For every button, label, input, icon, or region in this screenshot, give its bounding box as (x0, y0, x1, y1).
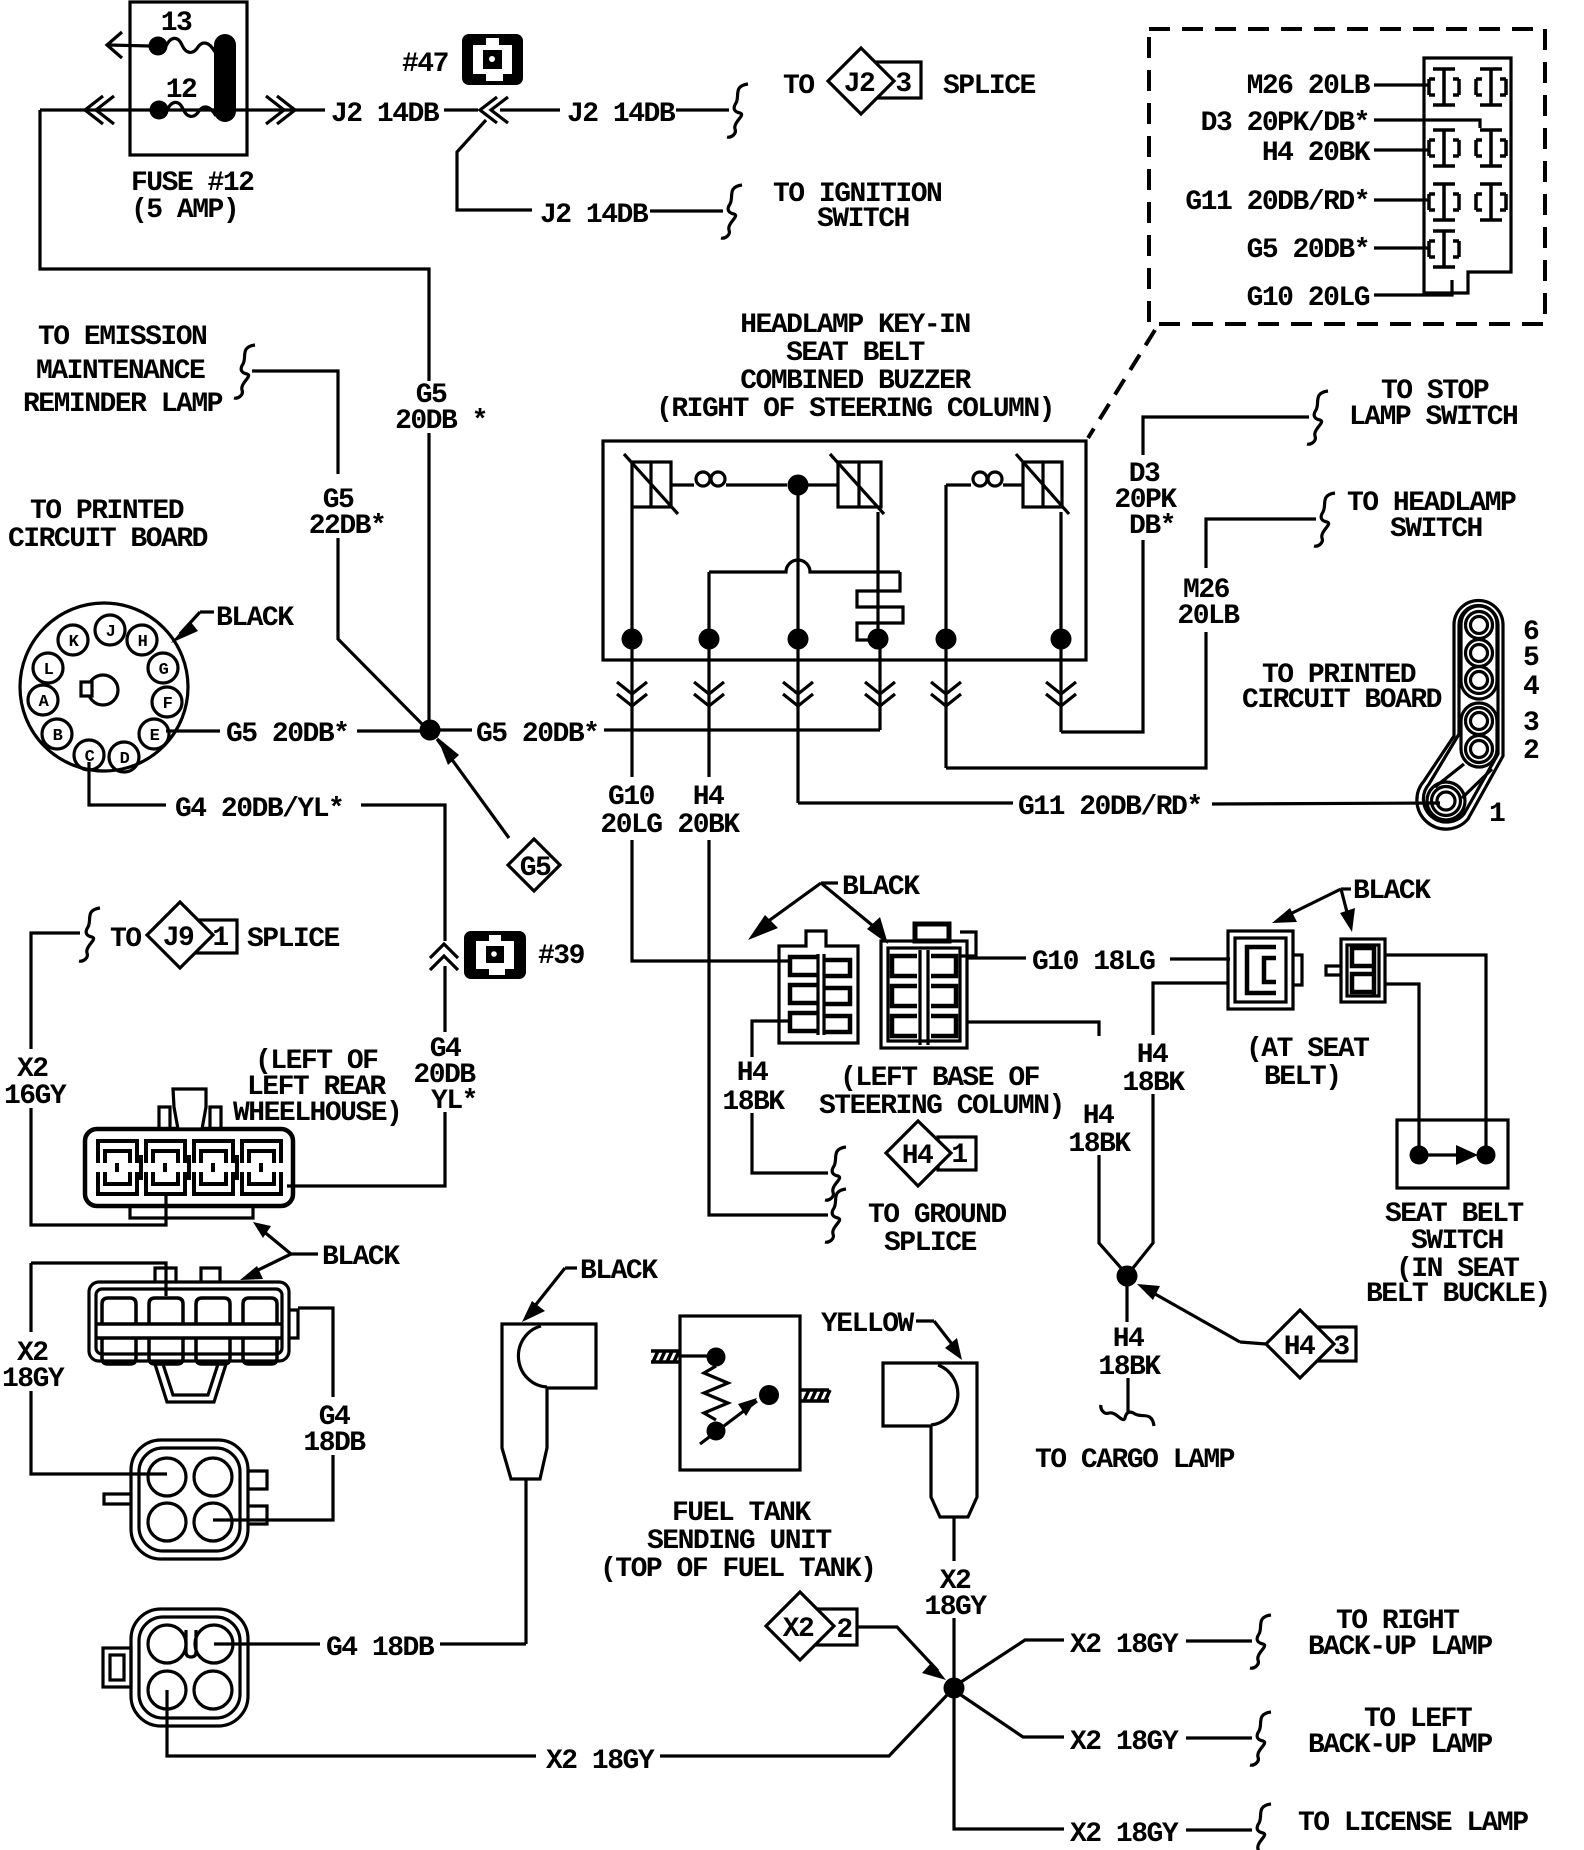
sending unit right stud (800, 1390, 830, 1401)
cavity J (95, 615, 125, 645)
fuse terminal dot 12 (150, 101, 169, 120)
internal wire to terminal 2 (707, 572, 710, 639)
dashed leader to buzzer (1088, 330, 1155, 438)
C204 terminals left column (790, 957, 818, 1031)
wire G5 into block (1374, 246, 1430, 249)
svg-text:D: D (120, 750, 130, 769)
svg-text:12: 12 (166, 75, 197, 106)
svg-text:WHEELHOUSE): WHEELHOUSE) (233, 1098, 401, 1129)
connector C200 wheelhouse 14-way body (85, 1129, 293, 1206)
cavity D (109, 742, 139, 772)
C203 cavities (148, 1625, 233, 1709)
label H4 18BK (right drop) (1122, 1040, 1185, 1099)
wire into pin 12 from left (40, 108, 214, 111)
svg-text:3: 3 (1523, 708, 1539, 739)
splice symbol H4-1 square (938, 1137, 976, 1170)
svg-text:CIRCUIT BOARD: CIRCUIT BOARD (8, 524, 208, 555)
svg-text:1: 1 (1489, 799, 1505, 830)
bracket license lamp (1250, 1804, 1271, 1850)
center keyway (81, 675, 118, 705)
svg-text:SWITCH: SWITCH (817, 204, 909, 235)
wire drop 5 (M26) (931, 649, 961, 768)
svg-text:BLACK: BLACK (1353, 876, 1431, 907)
svg-text:SPLICE: SPLICE (884, 1228, 977, 1259)
svg-text:H4: H4 (1113, 1324, 1144, 1355)
svg-text:18BK: 18BK (1098, 1352, 1161, 1383)
svg-text:G: G (159, 661, 169, 680)
wire G11 run right (798, 801, 1013, 804)
label X2 16GY (4, 1054, 67, 1112)
connector C201 top tabs (155, 1268, 220, 1282)
bracket to J9 splice (79, 908, 100, 961)
bracket to ground splice (upper) (825, 1147, 846, 1200)
wire junction to right label (440, 728, 472, 731)
svg-text:G4 18DB: G4 18DB (326, 1633, 435, 1664)
chevron connector on G4 wire (430, 944, 458, 970)
wire G10 18LG from C205 (967, 956, 1026, 959)
wire G4 18DB from C201 bump (298, 1308, 333, 1397)
PCB cavity 6 (1466, 612, 1493, 639)
splice symbol H4-3 diamond (1266, 1310, 1334, 1378)
buzzer terminal dots (622, 629, 1072, 650)
C205 terminals right column (931, 956, 956, 1036)
label (LEFT BASE OF STEERING COLUMN) (819, 1063, 1064, 1122)
connector C206 at seat belt (left) body (1228, 931, 1302, 1009)
svg-text:20LG: 20LG (600, 810, 662, 841)
wire H4 from C205 right side (967, 1022, 1099, 1036)
svg-text:DB*: DB* (1129, 511, 1175, 542)
svg-text:G5 20DB*: G5 20DB* (1247, 235, 1369, 266)
svg-text:TO EMISSION: TO EMISSION (38, 322, 206, 353)
splice symbol J2-3 square (877, 62, 921, 98)
bracket to headlamp switch (1314, 493, 1335, 546)
wire out of fuse right (236, 108, 325, 111)
buzzer internal junction dot (788, 475, 809, 496)
splice symbol J9-1 diamond (147, 902, 213, 968)
svg-text:X2: X2 (783, 1614, 814, 1645)
junction dot X2 (944, 1678, 965, 1699)
connector C201 terminal rows (96, 1298, 282, 1364)
wire drop 3 (G11) (783, 649, 813, 803)
label TO GROUND SPLICE (868, 1200, 1006, 1259)
wire from C207 to switch left (1385, 984, 1419, 1146)
junction dot H4 (1117, 1266, 1138, 1287)
grommet icon #39 (464, 931, 526, 979)
C202 cavities (148, 1458, 232, 1541)
label H4 18BK (below junction) (1098, 1324, 1161, 1383)
wire G4 20DB/YL from cavity C (89, 762, 166, 805)
bracket left back-up lamp (1250, 1712, 1271, 1765)
connector C205 steering column right body (881, 924, 976, 1048)
svg-text:1: 1 (951, 1140, 967, 1171)
svg-text:G10 18LG: G10 18LG (1032, 947, 1155, 978)
svg-text:SPLICE: SPLICE (943, 71, 1036, 102)
PCB cavity 4 (1466, 667, 1493, 694)
svg-text:(5 AMP): (5 AMP) (131, 195, 238, 226)
PCB cavity 1 (1432, 787, 1461, 816)
connector C200 top tabs (159, 1089, 221, 1129)
wire H4 to cargo lamp bracket (1126, 1378, 1129, 1412)
C204 terminals right column (824, 960, 850, 1032)
svg-text:LAMP SWITCH: LAMP SWITCH (1349, 402, 1517, 433)
cavity K (58, 625, 88, 655)
label X2 18GY (second) (2, 1338, 65, 1395)
wire drop 4 (G5) (865, 649, 895, 730)
wire G5 22DB down and diagonal to junction (338, 538, 425, 727)
wire drop 6 (D3) (1046, 649, 1076, 732)
PCB edge connector body (1417, 601, 1503, 830)
svg-text:G4 20DB/YL*: G4 20DB/YL* (175, 794, 343, 825)
svg-text:18DB: 18DB (303, 1428, 366, 1459)
label BLACK (round connector) with arrow (171, 603, 294, 643)
label HEADLAMP KEY-IN SEAT BELT COMBINED BUZZER (RIGHT OF STEERING COLUMN) (656, 310, 1054, 425)
label TO PRINTED CIRCUIT BOARD (right) (1242, 660, 1442, 716)
C204 terminal spine (818, 954, 824, 1035)
label SEAT BELT SWITCH (IN SEAT BELT BUCKLE) (1366, 1199, 1550, 1310)
svg-text:SWITCH: SWITCH (1390, 514, 1482, 545)
label YELLOW with arrow (821, 1309, 962, 1360)
PCB pin numbers (1489, 617, 1539, 830)
wire H4 down to upper ground bracket (752, 1113, 828, 1173)
buzzer element 2 (830, 454, 884, 514)
svg-text:STEERING COLUMN): STEERING COLUMN) (819, 1091, 1064, 1122)
wire S branch to license lamp (954, 1698, 1064, 1829)
wire X2 18GY from yellow connector (952, 1517, 955, 1561)
wire H4 down to junction (1099, 1155, 1121, 1268)
fuse element 13 (166, 38, 215, 52)
svg-text:G11 20DB/RD*: G11 20DB/RD* (1185, 187, 1369, 218)
splice symbol H4-1 diamond (886, 1121, 951, 1186)
wire G11 into block (1374, 198, 1430, 201)
svg-text:(LEFT BASE OF: (LEFT BASE OF (840, 1063, 1040, 1094)
svg-text:G5: G5 (520, 853, 551, 884)
fuel tank sending unit box (680, 1316, 800, 1470)
svg-text:BELT): BELT) (1264, 1062, 1341, 1093)
PCB cavity 3 (1466, 708, 1493, 735)
label G10 20LG (600, 782, 662, 841)
svg-text:J2 14DB: J2 14DB (540, 200, 649, 231)
connector C204 steering column left body (779, 931, 858, 1043)
svg-text:YL*: YL* (431, 1086, 477, 1117)
svg-text:L: L (44, 661, 54, 680)
cavity H (127, 625, 157, 655)
svg-text:BELT BUCKLE): BELT BUCKLE) (1366, 1279, 1550, 1310)
svg-text:J2 14DB: J2 14DB (331, 99, 440, 130)
internal wire element3 to terminal 6 (1059, 512, 1062, 639)
wire G10 18LG to seat belt connector (1170, 957, 1230, 960)
wire G4 below chevron (443, 966, 446, 1032)
coil 2 (946, 472, 1023, 486)
svg-text:H4: H4 (693, 782, 724, 813)
label TO RIGHT BACK-UP LAMP (1308, 1606, 1492, 1663)
svg-text:FUEL TANK: FUEL TANK (672, 1498, 811, 1529)
connector C200 terminals row 2 (98, 1172, 281, 1194)
svg-text:BACK-UP LAMP: BACK-UP LAMP (1308, 1632, 1492, 1663)
switch arm with arrow (1428, 1145, 1478, 1165)
internal wire element2 to terminal 4 (876, 512, 879, 639)
label H4 20BK (677, 782, 740, 841)
fuse block F12 box (130, 2, 247, 155)
cavity G (148, 653, 178, 683)
wire G10 into block (1374, 280, 1452, 295)
svg-text:2: 2 (1523, 736, 1539, 767)
wire down to junction (952, 1618, 955, 1678)
G5 reference arrow to junction (437, 737, 509, 838)
internal wire element1 to terminal 1 (630, 507, 633, 639)
PCB cavity 5 (1466, 640, 1493, 667)
fuse terminal dot 13 (149, 37, 168, 56)
wire G11 to PCB connector cavity 1 (1212, 803, 1440, 804)
coil 1 (671, 472, 787, 486)
C205 terminals left column (892, 956, 917, 1036)
label BLACK (fuel) with arrow (522, 1256, 658, 1322)
cavity L (33, 653, 63, 683)
svg-text:H: H (138, 633, 148, 652)
bracket to ground splice (lower) (825, 1189, 846, 1242)
chevron connector #47 splice point (480, 97, 508, 123)
wire G5 20DB from fuse: left drop and run to x429 (40, 110, 429, 381)
wire H4 20BK to ground splice bracket (709, 840, 828, 1215)
svg-text:(RIGHT OF STEERING COLUMN): (RIGHT OF STEERING COLUMN) (656, 394, 1054, 425)
label M26 20LB (1177, 575, 1240, 632)
wire H4 below junction (1125, 1286, 1128, 1322)
sending unit wiper arm with arrow (700, 1398, 757, 1444)
svg-text:HEADLAMP KEY-IN: HEADLAMP KEY-IN (740, 310, 970, 341)
svg-text:SPLICE: SPLICE (247, 924, 340, 955)
svg-text:5: 5 (1523, 643, 1539, 674)
svg-text:TO: TO (110, 924, 141, 955)
svg-text:G5 20DB*: G5 20DB* (476, 719, 598, 750)
svg-text:18BK: 18BK (722, 1087, 785, 1118)
svg-text:18GY: 18GY (2, 1364, 65, 1395)
label TO HEADLAMP SWITCH (1347, 488, 1516, 545)
svg-text:H4: H4 (1137, 1040, 1168, 1071)
svg-text:COMBINED BUZZER: COMBINED BUZZER (740, 366, 971, 397)
sending unit terminal dot 3 (707, 1422, 726, 1441)
svg-text:(AT SEAT: (AT SEAT (1246, 1034, 1369, 1065)
fuse bus bar (214, 34, 236, 122)
fuse cell R3 (1476, 184, 1506, 220)
svg-text:(TOP OF FUEL TANK): (TOP OF FUEL TANK) (600, 1554, 875, 1585)
label TO EMISSION MAINTENANCE REMINDER LAMP (23, 322, 223, 420)
svg-text:4: 4 (1523, 672, 1539, 703)
wire SE branch to left back-up lamp (961, 1695, 1064, 1737)
wire NE branch to right back-up lamp (961, 1640, 1064, 1682)
label H4 18BK (left drop) (722, 1058, 785, 1118)
svg-text:20DB *: 20DB * (395, 406, 487, 437)
sending unit left stud (651, 1351, 680, 1362)
svg-text:YELLOW: YELLOW (821, 1309, 915, 1340)
wire to buzzer element 2 (808, 483, 838, 486)
label TO PRINTED CIRCUIT BOARD (left) (8, 496, 208, 555)
wire to bracket (left back-up) (1186, 1736, 1252, 1739)
wire from X2-2 splice with arrow to junction (857, 1627, 946, 1680)
svg-text:TO: TO (783, 71, 814, 102)
wire M26 right and up (946, 632, 1206, 768)
label D3 20PK DB* (1114, 459, 1177, 542)
wire D3 up to stop lamp switch (1143, 417, 1309, 455)
wire H4 into block (1374, 148, 1430, 151)
svg-text:J: J (106, 623, 115, 642)
svg-text:22DB*: 22DB* (309, 511, 386, 542)
C205 terminal spine (920, 950, 928, 1045)
svg-text:M26 20LB: M26 20LB (1247, 71, 1371, 102)
label H4 18BK (middle drop) (1068, 1101, 1131, 1160)
wire label to junction (357, 729, 420, 732)
wire X2 18GY down to connector C202 (31, 1263, 167, 1474)
internal wire junction to terminal 3 (796, 495, 799, 639)
connector C202 4-way body (131, 1440, 248, 1559)
fuse cell L1 (1429, 69, 1459, 105)
wire from black connector stem (524, 1479, 527, 1644)
svg-text:H4 20BK: H4 20BK (1262, 138, 1371, 169)
svg-text:3: 3 (895, 69, 911, 100)
splice symbol X2-2 diamond (766, 1592, 834, 1660)
wire G10 to steering column connector (632, 840, 788, 961)
label BLACK (wheelhouse connectors) with two arrows (240, 1222, 400, 1280)
junction dot G5 (420, 720, 441, 741)
svg-text:J2: J2 (844, 69, 875, 100)
wire to second J2 label (500, 108, 560, 111)
wire pin E to G5 label (166, 729, 220, 732)
sending unit terminal dot 1 (707, 1348, 726, 1367)
fuse cell R2 (1476, 130, 1506, 166)
sending unit terminal dot 2 (759, 1385, 779, 1405)
svg-text:BACK-UP LAMP: BACK-UP LAMP (1308, 1730, 1492, 1761)
svg-text:X2 18GY: X2 18GY (1070, 1630, 1179, 1661)
chevron in-line connector left of fuse (85, 96, 114, 124)
buzzer element 1 (624, 454, 678, 514)
bracket to stop lamp switch (1307, 391, 1328, 444)
wire G5 to buzzer drop w4 (604, 728, 880, 731)
fuse block in detail box (1424, 58, 1511, 293)
svg-text:X2 18GY: X2 18GY (1070, 1819, 1179, 1850)
svg-text:BLACK: BLACK (580, 1256, 658, 1287)
wire to splice bracket (676, 108, 729, 111)
C206 terminal (1247, 947, 1276, 993)
wire G4 18DB to black single connector (440, 1642, 526, 1645)
single-way connector (BLACK) at fuel tank (502, 1324, 596, 1479)
wire D3 into block (1374, 120, 1480, 128)
internal resistor meander (857, 572, 903, 640)
wire G5 continues down to junction (427, 433, 430, 721)
svg-text:G10: G10 (608, 782, 655, 813)
bracket to emission lamp (234, 345, 255, 398)
svg-text:13: 13 (161, 8, 192, 39)
svg-text:X2 18GY: X2 18GY (1070, 1727, 1179, 1758)
splice symbol J2-3 diamond (828, 48, 894, 114)
C207 terminals (1352, 945, 1374, 996)
svg-text:SWITCH: SWITCH (1411, 1226, 1503, 1257)
bracket to J2 splice (727, 84, 748, 137)
wire X2 18GY from C203 bottom-left cavity (167, 1690, 536, 1756)
connector C201 8-way body (89, 1282, 289, 1361)
svg-text:H4: H4 (737, 1058, 768, 1089)
svg-text:TO GROUND: TO GROUND (868, 1200, 1006, 1231)
svg-text:G11 20DB/RD*: G11 20DB/RD* (1018, 792, 1202, 823)
cavity E (139, 719, 169, 749)
label G5 22DB* (309, 485, 386, 542)
splice symbol J9-1 square (195, 920, 237, 953)
sending unit resistor (704, 1366, 728, 1420)
svg-text:H4: H4 (902, 1141, 933, 1172)
label (LEFT OF LEFT REAR WHEELHOUSE) (233, 1046, 401, 1129)
svg-text:#39: #39 (538, 941, 585, 972)
wire G4 down and left into wheelhouse connector (287, 1112, 445, 1186)
wire from C207 to switch right (1385, 955, 1486, 1146)
C203 left tab (103, 1648, 131, 1687)
bracket to ignition switch (721, 185, 742, 238)
buzzer element 3 (1016, 454, 1069, 514)
fuse cell R1 (1476, 69, 1506, 105)
wire drop 1 (G10) (617, 649, 647, 777)
svg-text:BLACK: BLACK (216, 603, 294, 634)
svg-text:H4: H4 (1083, 1101, 1114, 1132)
label X2 18GY (yellow drop) (924, 1566, 987, 1623)
svg-text:1: 1 (212, 923, 228, 954)
connector C207 at seat belt (right) body (1326, 939, 1385, 1002)
wire to ignition bracket (650, 209, 723, 212)
svg-text:G10 20LG: G10 20LG (1247, 283, 1370, 314)
svg-text:16GY: 16GY (4, 1081, 67, 1112)
wire H4 from C206 down to junction (1153, 983, 1228, 1035)
wire label to corner x445 (361, 805, 445, 941)
wire into H4-3 diamond (1240, 1342, 1266, 1344)
wire to J9 bracket (31, 933, 80, 1049)
buzzer module box (603, 441, 1086, 660)
svg-text:20BK: 20BK (677, 810, 740, 841)
svg-text:SEAT BELT: SEAT BELT (786, 338, 924, 369)
fuse cell L2 (1429, 130, 1459, 166)
svg-text:SENDING UNIT: SENDING UNIT (647, 1526, 831, 1557)
svg-text:TO CARGO LAMP: TO CARGO LAMP (1035, 1445, 1235, 1476)
G5 reference diamond (508, 839, 560, 891)
svg-text:TO LICENSE LAMP: TO LICENSE LAMP (1298, 1808, 1528, 1839)
C203 center key (186, 1630, 196, 1657)
label FUEL TANK SENDING UNIT (TOP OF FUEL TANK) (600, 1498, 875, 1585)
fuse element 12 (167, 102, 216, 116)
dashed detail box (1149, 29, 1545, 324)
label (AT SEAT BELT) (1246, 1034, 1369, 1093)
internal jumper with hop (709, 560, 900, 572)
svg-text:G5 20DB*: G5 20DB* (226, 719, 348, 750)
svg-text:H4: H4 (1284, 1332, 1315, 1363)
svg-text:#47: #47 (402, 49, 448, 80)
svg-text:E: E (150, 727, 160, 746)
wire X2 16GY down to wheelhouse connector (31, 1108, 166, 1225)
sending unit terminal wire (680, 1354, 712, 1357)
svg-text:18GY: 18GY (924, 1592, 987, 1623)
wire into pin 13 with open arrow (107, 32, 150, 58)
label G5 20DB* (vertical run) (395, 380, 487, 437)
cavity F (152, 687, 182, 717)
bracket right back-up lamp (1250, 1615, 1271, 1668)
svg-text:D3 20PK/DB*: D3 20PK/DB* (1201, 108, 1369, 139)
branch wire down from #47 chevron (457, 120, 532, 210)
connector C100 12-cavity round (printed circuit board) body (20, 603, 188, 771)
svg-text:B: B (53, 727, 63, 746)
internal wire coil2 to terminal 5 (944, 485, 947, 639)
splice symbol X2-2 square (817, 1609, 857, 1645)
fuse cell L3 (1429, 184, 1459, 220)
wire G4 18DB from C203 to black connector (214, 1642, 320, 1645)
svg-text:MAINTENANCE: MAINTENANCE (36, 356, 205, 387)
wire to bracket (right back-up) (1186, 1639, 1252, 1642)
svg-text:TO PRINTED: TO PRINTED (30, 496, 184, 527)
label G4 18DB (303, 1402, 366, 1459)
PCB cavity 2 (1466, 736, 1493, 763)
label TO IGNITION SWITCH (773, 179, 941, 235)
